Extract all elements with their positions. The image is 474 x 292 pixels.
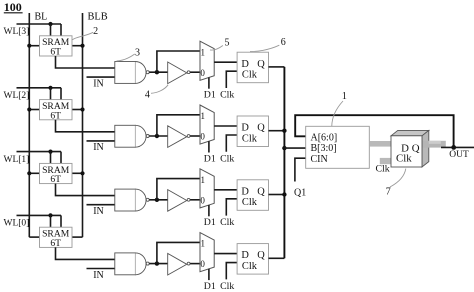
svg-text:Q: Q: [257, 250, 265, 261]
SRAM 6T cell (2) row 3: [40, 163, 73, 185]
wire SRAM row 1 to BLB: [72, 45, 83, 47]
svg-text:6T: 6T: [50, 238, 61, 249]
wire node to mux input 1 row 1: [157, 51, 200, 72]
wire SRAM row 3 to BLB: [72, 172, 83, 174]
junction BLB row 2: [80, 107, 84, 111]
mux 2:1 (5) row 4: [200, 233, 214, 272]
svg-text:0: 0: [200, 132, 205, 142]
svg-text:D1: D1: [204, 153, 216, 164]
wire NAND output row 4: [149, 263, 167, 265]
wire IN input row 2: [87, 140, 116, 142]
svg-text:CIN: CIN: [311, 154, 328, 165]
mux 2:1 (5) row 2: [200, 105, 214, 144]
wire SRAM row 1 output to NAND input: [56, 56, 116, 68]
wire DFF Q output row 1: [269, 66, 285, 68]
svg-text:Clk: Clk: [242, 261, 258, 272]
wire CIN input from Q1: [295, 158, 306, 181]
svg-text:WL[2]: WL[2]: [4, 91, 30, 101]
leader for label 2: [72, 32, 93, 40]
wire OUT: [441, 146, 474, 148]
svg-text:Clk: Clk: [242, 70, 258, 81]
wire BL to SRAM row 4: [29, 236, 39, 238]
wire DFF Q output row 4: [269, 257, 285, 259]
svg-text:Clk: Clk: [220, 217, 234, 228]
svg-text:1: 1: [200, 239, 205, 249]
output D flip-flop (7) 3D top face: [391, 130, 429, 135]
output D flip-flop (7) front face: [391, 136, 422, 167]
SRAM 6T cell (2) row 2: [40, 100, 73, 122]
SRAM 6T cell (2) row 1: [40, 36, 73, 58]
svg-text:WL[0]: WL[0]: [4, 219, 30, 229]
svg-text:1: 1: [200, 47, 205, 57]
leader for label 3: [117, 54, 135, 61]
wire mux select D1 row 4: [208, 269, 210, 280]
svg-text:D: D: [241, 123, 249, 134]
svg-text:WL[1]: WL[1]: [4, 155, 30, 165]
wire WL[1] right stub into SRAM row 3: [60, 152, 62, 164]
NAND gate (3) row 3: [115, 189, 149, 211]
wire mux select D1 row 2: [208, 141, 210, 152]
bus Clk stub of output DFF: [380, 158, 391, 164]
svg-text:WL[3]: WL[3]: [4, 27, 30, 37]
junction on WL[1]: [48, 150, 52, 154]
junction NAND output node row 4: [155, 261, 159, 265]
wire mux output to DFF D row 3: [214, 189, 237, 191]
wire node to mux input 1 row 4: [157, 242, 200, 263]
svg-text:1: 1: [200, 111, 205, 121]
wire word line WL[3]: [17, 23, 62, 25]
svg-text:Clk: Clk: [396, 153, 412, 165]
svg-text:OUT: OUT: [449, 150, 469, 160]
svg-text:Clk: Clk: [376, 164, 390, 175]
mux 2:1 (5) row 1: [200, 41, 214, 80]
svg-text:D: D: [241, 250, 249, 261]
junction NAND output node row 3: [155, 198, 159, 202]
wire mux output to DFF D row 2: [214, 125, 237, 127]
junction NAND output node row 1: [155, 70, 159, 74]
leader for label 4: [151, 85, 168, 94]
svg-text:0: 0: [200, 68, 205, 78]
svg-text:IN: IN: [93, 206, 104, 217]
wire Q bus vertical: [283, 67, 285, 258]
wire IN input row 3: [87, 204, 116, 206]
leader for label 1: [332, 101, 343, 126]
wire node to mux input 1 row 2: [157, 115, 200, 136]
wire DFF Q output row 3: [269, 194, 285, 196]
svg-text:Q: Q: [412, 142, 420, 154]
wire SRAM row 3 output to NAND input: [56, 184, 116, 196]
adder (1): [306, 126, 370, 168]
svg-text:1: 1: [342, 91, 347, 102]
wire WL[2] right stub into SRAM row 2: [60, 88, 62, 100]
svg-text:IN: IN: [93, 270, 104, 281]
mux 2:1 (5) row 3: [200, 169, 214, 208]
wire inverter output to mux input 0 row 2: [190, 135, 200, 137]
svg-text:IN: IN: [93, 78, 104, 89]
inverter (4) row 1: [168, 62, 190, 84]
output D flip-flop (7) 3D right face: [422, 130, 429, 167]
junction on WL[2]: [48, 86, 52, 90]
svg-text:D1: D1: [204, 90, 216, 101]
junction BLB row 1: [80, 44, 84, 48]
svg-text:D1: D1: [204, 217, 216, 228]
svg-text:3: 3: [135, 48, 140, 59]
wire BL to SRAM row 2: [29, 109, 39, 111]
svg-text:2: 2: [93, 26, 98, 37]
wire Clk to DFF row 4: [226, 263, 237, 280]
wire word line WL[0]: [17, 214, 62, 216]
wire WL[1] left stub into SRAM row 3: [50, 152, 52, 164]
svg-text:Clk: Clk: [220, 90, 234, 101]
inverter (4) row 3: [168, 190, 190, 212]
figure label 100: [4, 0, 23, 14]
wire B input of adder: [284, 147, 305, 149]
bus output DFF to OUT: [423, 141, 446, 148]
junction on WL[3]: [48, 22, 52, 26]
svg-text:7: 7: [386, 186, 391, 197]
wire WL[2] left stub into SRAM row 2: [50, 88, 52, 100]
svg-text:1: 1: [200, 175, 205, 185]
junction BLB row 3: [80, 171, 84, 175]
svg-text:0: 0: [200, 195, 205, 205]
wire inverter output to mux input 0 row 4: [190, 263, 200, 265]
wire WL[3] right stub into SRAM row 1: [60, 24, 62, 36]
wire NAND output row 3: [149, 199, 167, 201]
bus adder output to output DFF: [369, 141, 391, 147]
SRAM 6T cell (2) row 4: [40, 227, 73, 249]
svg-text:D: D: [241, 59, 249, 70]
wire bit line BLB: [82, 13, 84, 237]
wire BL to SRAM row 3: [29, 172, 39, 174]
wire feedback OUT to adder A input: [295, 115, 453, 146]
svg-text:6T: 6T: [50, 110, 61, 121]
svg-text:BLB: BLB: [88, 12, 108, 23]
inverter (4) row 4: [168, 253, 190, 275]
svg-text:100: 100: [4, 0, 22, 14]
wire node to mux input 1 row 3: [157, 179, 200, 200]
svg-text:Q: Q: [257, 123, 265, 134]
svg-text:Q1: Q1: [294, 187, 306, 198]
junction Q bus B tap: [282, 146, 286, 150]
leader for label 7: [390, 169, 406, 187]
wire SRAM row 2 to BLB: [72, 109, 83, 111]
svg-text:Clk: Clk: [242, 133, 258, 144]
junction BL row 3: [27, 171, 31, 175]
svg-text:A[6:0]: A[6:0]: [311, 132, 338, 143]
svg-text:Clk: Clk: [220, 153, 234, 164]
svg-text:6T: 6T: [50, 174, 61, 185]
svg-text:Q: Q: [257, 186, 265, 197]
wire mux output to DFF D row 4: [214, 253, 237, 255]
svg-text:D: D: [241, 186, 249, 197]
wire Clk to DFF row 1: [226, 71, 237, 88]
D flip-flop (6) row 3: [237, 180, 268, 211]
wire DFF Q output row 2: [269, 130, 285, 132]
leader for label 5: [210, 46, 223, 51]
wire SRAM row 4 output to NAND input: [56, 247, 116, 259]
wire inverter output to mux input 0 row 1: [190, 71, 200, 73]
svg-text:Clk: Clk: [220, 281, 234, 292]
NAND gate (3) row 4: [115, 253, 149, 275]
junction on WL[0]: [48, 213, 52, 217]
wire Clk to DFF row 3: [226, 199, 237, 216]
wire WL[0] left stub into SRAM row 4: [50, 215, 52, 227]
svg-text:5: 5: [225, 38, 230, 49]
svg-text:6: 6: [281, 37, 286, 48]
junction BL row 1: [27, 44, 31, 48]
junction Q bus row 3: [282, 192, 286, 196]
wire bit line BL: [28, 13, 30, 237]
D flip-flop (6) row 2: [237, 116, 268, 147]
D flip-flop (6) row 1: [237, 52, 268, 82]
wire NAND output row 2: [149, 135, 167, 137]
D flip-flop (6) row 4: [237, 244, 268, 275]
svg-text:BL: BL: [35, 12, 48, 23]
wire mux select D1 row 1: [208, 77, 210, 88]
wire WL[3] left stub into SRAM row 1: [50, 24, 52, 36]
svg-text:Clk: Clk: [242, 197, 258, 208]
svg-text:D1: D1: [204, 281, 216, 292]
junction NAND output node row 2: [155, 134, 159, 138]
wire inverter output to mux input 0 row 3: [190, 199, 200, 201]
junction OUT node: [451, 145, 456, 150]
svg-text:IN: IN: [93, 142, 104, 153]
inverter (4) row 2: [168, 126, 190, 148]
svg-text:6T: 6T: [50, 47, 61, 58]
wire IN input row 1: [87, 76, 116, 78]
wire word line WL[1]: [17, 151, 62, 153]
wire NAND output row 1: [149, 71, 167, 73]
junction BL row 2: [27, 107, 31, 111]
wire WL[0] right stub into SRAM row 4: [60, 215, 62, 227]
wire BL to SRAM row 1: [29, 45, 39, 47]
leader for label 6: [250, 45, 279, 51]
wire IN input row 4: [87, 268, 116, 270]
wire SRAM row 2 output to NAND input: [56, 120, 116, 132]
wire word line WL[2]: [17, 87, 62, 89]
svg-text:B[3:0]: B[3:0]: [311, 143, 337, 154]
svg-text:4: 4: [145, 90, 150, 101]
NAND gate (3) row 2: [115, 125, 149, 147]
svg-text:0: 0: [200, 259, 205, 269]
NAND gate (3) row 1: [115, 62, 149, 84]
junction Q bus row 2: [282, 129, 286, 133]
svg-text:Q: Q: [257, 59, 265, 70]
wire SRAM row 4 to BLB: [72, 236, 83, 238]
wire mux output to DFF D row 1: [214, 61, 237, 63]
wire Clk to DFF row 2: [226, 135, 237, 152]
wire mux select D1 row 3: [208, 205, 210, 216]
